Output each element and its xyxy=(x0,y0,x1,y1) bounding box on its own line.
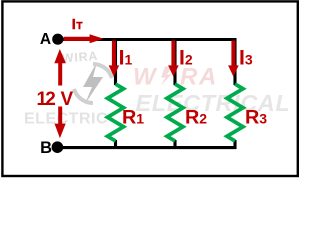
current arrow I2 xyxy=(168,41,193,77)
voltage label 12 V xyxy=(37,89,74,110)
svg-text:R1: R1 xyxy=(122,107,144,129)
wire top xyxy=(58,38,237,41)
svg-text:12V: 12V xyxy=(37,89,74,110)
svg-text:IT: IT xyxy=(72,17,83,33)
svg-text:B: B xyxy=(40,139,52,157)
resistor R1 xyxy=(108,84,145,141)
node A xyxy=(40,31,64,48)
wire branch 2 bottom xyxy=(173,140,176,149)
wire branch 3 bottom xyxy=(233,140,236,149)
current arrow I3 xyxy=(228,41,253,77)
voltage polarity arrow down xyxy=(55,107,66,139)
voltage polarity arrow up xyxy=(54,49,66,86)
node B xyxy=(40,139,63,157)
current arrow IT xyxy=(64,17,104,43)
svg-text:A: A xyxy=(40,31,51,48)
current arrow I1 xyxy=(109,41,133,77)
resistor R3 xyxy=(227,84,267,141)
wire branch 1 top xyxy=(114,38,117,85)
wire branch 2 top xyxy=(173,38,176,85)
resistor R2 xyxy=(167,84,207,141)
wire bottom xyxy=(57,146,236,149)
svg-text:R2: R2 xyxy=(185,107,207,129)
svg-text:I2: I2 xyxy=(179,47,193,70)
wire branch 1 bottom xyxy=(114,140,117,149)
wire branch 3 top xyxy=(233,38,236,85)
svg-text:I1: I1 xyxy=(119,47,133,70)
svg-text:ELECTRIC: ELECTRIC xyxy=(24,111,108,128)
svg-text:ELECTRICAL: ELECTRICAL xyxy=(136,90,291,116)
svg-text:I3: I3 xyxy=(239,47,253,70)
svg-text:R3: R3 xyxy=(245,107,267,129)
